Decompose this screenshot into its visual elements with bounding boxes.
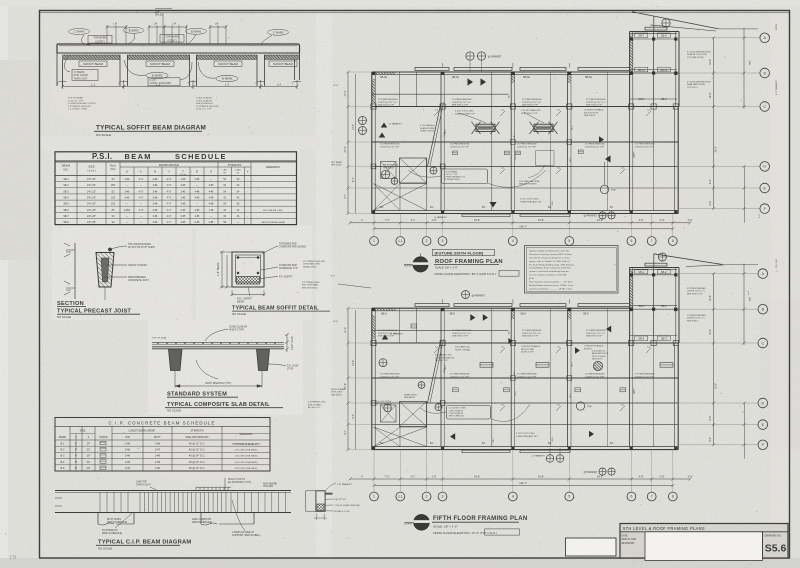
svg-text:SEE 5/S5.6: SEE 5/S5.6 bbox=[331, 165, 343, 167]
svg-text:7'-0": 7'-0" bbox=[385, 219, 390, 222]
svg-text:2 hr. fire rating in accordanc: 2 hr. fire rating in accordance with Tab… bbox=[529, 274, 567, 277]
svg-text:roof: roof bbox=[748, 291, 750, 295]
section typical precast joist detail bbox=[74, 243, 76, 299]
svg-text:TOP: TOP bbox=[125, 436, 130, 439]
svg-text:4'-0" PARAPET: 4'-0" PARAPET bbox=[775, 79, 778, 95]
svg-text:15' PRESTRESSED: 15' PRESTRESSED bbox=[586, 99, 606, 101]
svg-text:MAR 23, 1981: MAR 23, 1981 bbox=[622, 538, 637, 541]
svg-text:105: 105 bbox=[111, 197, 116, 200]
svg-text:JOISTS @ 24" O.C.: JOISTS @ 24" O.C. bbox=[687, 291, 706, 293]
svg-text:2#4 CONT.(1 EA. FACE): 2#4 CONT.(1 EA. FACE) bbox=[235, 449, 258, 452]
svg-text:3-#6: 3-#6 bbox=[125, 178, 130, 181]
svg-text:24": 24" bbox=[87, 461, 91, 464]
svg-text:(ft-k): (ft-k) bbox=[111, 168, 116, 171]
soffit diagram: top projection lines and dims bbox=[106, 25, 108, 44]
svg-text:4-#5: 4-#5 bbox=[195, 215, 200, 218]
svg-text:4-#5: 4-#5 bbox=[209, 197, 214, 200]
svg-text:JOISTS @ 24" TYP: JOISTS @ 24" TYP bbox=[380, 376, 400, 378]
plan: left dim lines bbox=[347, 308, 349, 449]
svg-text:6'-8": 6'-8" bbox=[709, 437, 712, 442]
svg-text:31-A.: 31-A. bbox=[529, 277, 535, 280]
plan: beam lines bbox=[372, 106, 679, 108]
soffit diagram: A bars note bbox=[72, 70, 98, 81]
svg-text:1: 1 bbox=[373, 495, 375, 499]
svg-text:SB-10: SB-10 bbox=[638, 69, 646, 72]
svg-text:2-#6: 2-#6 bbox=[125, 455, 131, 458]
svg-text:250: 250 bbox=[111, 184, 116, 187]
svg-text:(PER SCHEDULE): (PER SCHEDULE) bbox=[192, 521, 212, 524]
svg-text:15' PRESTRESSED: 15' PRESTRESSED bbox=[687, 288, 706, 290]
small blank box left of title block bbox=[566, 538, 617, 556]
svg-text:JOISTS @ 24" TYP: JOISTS @ 24" TYP bbox=[635, 146, 655, 148]
svg-text:1'-8" BEAM: 1'-8" BEAM bbox=[216, 263, 220, 276]
svg-text:24"x 25": 24"x 25" bbox=[87, 215, 96, 218]
roof plan: column tags bbox=[500, 111, 505, 116]
svg-text:E: E bbox=[196, 170, 198, 174]
plan: letter bubbles right bbox=[679, 37, 760, 39]
svg-text:4-#5: 4-#5 bbox=[195, 178, 200, 181]
svg-text:TYPICAL BEAM SOFFIT DETAIL: TYPICAL BEAM SOFFIT DETAIL bbox=[232, 306, 319, 312]
svg-text:system, refer to Chapter 31, T: system, refer to Chapter 31, Table 31-A,… bbox=[529, 260, 570, 263]
svg-text:TOP (SEE NOTE): TOP (SEE NOTE) bbox=[687, 57, 704, 59]
svg-text:24"x 25": 24"x 25" bbox=[87, 221, 96, 224]
svg-text:@ PARAPET: @ PARAPET bbox=[532, 455, 546, 458]
soffit diagram: span dimension line bbox=[62, 80, 64, 89]
svg-text:15' PRESTRESSED: 15' PRESTRESSED bbox=[450, 374, 470, 376]
svg-text:4-#5: 4-#5 bbox=[209, 190, 214, 193]
soffit diagram: SOFFIT BEAM labels bbox=[79, 61, 107, 66]
svg-text:4 1/2 LT WT CONC: 4 1/2 LT WT CONC bbox=[520, 199, 539, 201]
svg-text:JOISTS @ 24" TYP: JOISTS @ 24" TYP bbox=[380, 146, 400, 148]
svg-text:CONC SLAB W/: CONC SLAB W/ bbox=[196, 99, 212, 102]
svg-text:W8 MONORAIL: W8 MONORAIL bbox=[383, 164, 399, 167]
svg-text:EXP JT MATL: EXP JT MATL bbox=[308, 403, 322, 406]
plan: grid bubbles bottom bbox=[373, 450, 375, 492]
svg-text:SEE 3/S5.6 TYP: SEE 3/S5.6 TYP bbox=[452, 336, 469, 338]
plan: column lines bbox=[440, 308, 442, 446]
svg-text:STIRRUPS: STIRRUPS bbox=[228, 163, 242, 167]
svg-text:ROOF FRAMING PLAN: ROOF FRAMING PLAN bbox=[435, 259, 503, 265]
svg-text:8": 8" bbox=[75, 461, 77, 464]
svg-text:SB-6: SB-6 bbox=[521, 312, 527, 315]
svg-text:TYPICAL PRECAST JOIST: TYPICAL PRECAST JOIST bbox=[57, 309, 131, 315]
svg-text:4 1/2 LT WT CONC: 4 1/2 LT WT CONC bbox=[455, 111, 474, 113]
plan: parapet tabs bbox=[415, 67, 449, 70]
svg-text:24'-8": 24'-8" bbox=[538, 475, 544, 478]
svg-text:SB-9: SB-9 bbox=[661, 98, 667, 101]
svg-text:ADD WHERE: ADD WHERE bbox=[263, 482, 278, 485]
svg-text:SB-3: SB-3 bbox=[661, 305, 667, 308]
svg-text:JOISTS @ 24" O.C.: JOISTS @ 24" O.C. bbox=[378, 102, 398, 104]
svg-text:SEE 3/S5.6 TYP: SEE 3/S5.6 TYP bbox=[452, 105, 469, 107]
soffit diagram: left support column bbox=[56, 53, 58, 86]
svg-text:4' CONC/DISTRIBUTION: 4' CONC/DISTRIBUTION bbox=[687, 82, 711, 84]
svg-text:24"x 25": 24"x 25" bbox=[87, 203, 96, 206]
svg-text:PER 2/S5.6 TYP: PER 2/S5.6 TYP bbox=[521, 113, 538, 115]
svg-text:(TYP): (TYP) bbox=[287, 368, 293, 371]
svg-text:JOISTS @ 24" O.C.: JOISTS @ 24" O.C. bbox=[586, 102, 606, 104]
svg-text:3-#6: 3-#6 bbox=[153, 197, 158, 200]
svg-text:SEE ARCH: SEE ARCH bbox=[404, 396, 415, 399]
svg-text:SB-4: SB-4 bbox=[63, 197, 69, 200]
svg-text:CONVEYOR AISLE: CONVEYOR AISLE bbox=[584, 345, 604, 348]
svg-text:15' PRESTRESSED: 15' PRESTRESSED bbox=[522, 330, 542, 332]
svg-text:SLAB W/ WWF: SLAB W/ WWF bbox=[420, 127, 436, 130]
svg-text:4'-0": 4'-0" bbox=[167, 215, 172, 218]
svg-text:5# cont: 5# cont bbox=[180, 173, 186, 176]
svg-text:1.1: 1.1 bbox=[398, 239, 403, 243]
svg-text:4 1/2" SLAB: 4 1/2" SLAB bbox=[291, 336, 294, 350]
svg-text:SIZE AND SPACING: SIZE AND SPACING bbox=[185, 436, 208, 439]
svg-text:JOISTS @ 24" O.C.: JOISTS @ 24" O.C. bbox=[452, 102, 472, 104]
composite slab lines bbox=[152, 341, 284, 343]
svg-text:LOAD: LOAD bbox=[235, 169, 241, 172]
plan: grid bubbles bottom bbox=[373, 214, 375, 237]
svg-text:4'-1": 4'-1" bbox=[167, 221, 172, 224]
svg-text:C.I.P. CONCRETE BEAM SCHEDULE: C.I.P. CONCRETE BEAM SCHEDULE bbox=[109, 420, 216, 425]
svg-text:4'-0": 4'-0" bbox=[167, 178, 172, 181]
svg-text:3-#6: 3-#6 bbox=[153, 203, 158, 206]
svg-text:W12x27 SEE: W12x27 SEE bbox=[521, 349, 535, 351]
svg-text:@ PARAPET: @ PARAPET bbox=[472, 294, 486, 297]
svg-text:3-#6: 3-#6 bbox=[153, 209, 158, 212]
svg-text:ROOF: ROOF bbox=[776, 23, 778, 30]
svg-text:TYP JST SEAT DET: TYP JST SEAT DET bbox=[521, 109, 541, 112]
svg-text:SB-6a: SB-6a bbox=[523, 76, 531, 79]
svg-text:5: 5 bbox=[568, 495, 570, 499]
svg-text:NORTH: NORTH bbox=[405, 523, 413, 525]
svg-text:TOP OF BEAM: TOP OF BEAM bbox=[68, 97, 83, 100]
svg-text:NORTH: NORTH bbox=[404, 266, 412, 268]
svg-text:SECTION: SECTION bbox=[57, 301, 84, 307]
CIP table data rows bbox=[55, 445, 270, 447]
svg-text:2: 2 bbox=[426, 495, 428, 499]
svg-text:C: C bbox=[763, 105, 766, 109]
svg-text:6: 6 bbox=[630, 495, 632, 499]
svg-text:4'-0": 4'-0" bbox=[139, 190, 144, 193]
svg-text:SB-6a: SB-6a bbox=[380, 76, 388, 79]
svg-text:B: B bbox=[154, 170, 156, 174]
svg-text:L.1: L.1 bbox=[91, 82, 95, 86]
plan: diagonal beam bbox=[428, 103, 442, 167]
svg-text:TOP BARS: TOP BARS bbox=[165, 35, 179, 39]
svg-text:1/2" PREMOLDED EXP: 1/2" PREMOLDED EXP bbox=[303, 261, 326, 263]
svg-text:2: 2 bbox=[426, 239, 428, 243]
svg-text:1/2 PREMOLDED: 1/2 PREMOLDED bbox=[308, 402, 326, 404]
svg-text:Ru: Ru bbox=[237, 173, 240, 175]
svg-text:2#4 CONT.(1 EA. FACE): 2#4 CONT.(1 EA. FACE) bbox=[235, 443, 258, 446]
svg-text:SB-6: SB-6 bbox=[381, 312, 387, 315]
precast joist shape bbox=[96, 253, 114, 288]
svg-text:2-#7: 2-#7 bbox=[155, 449, 161, 452]
svg-text:NOTE / DETAIL: NOTE / DETAIL bbox=[455, 348, 471, 351]
svg-text:1501/ AND 400: 1501/ AND 400 bbox=[455, 346, 471, 349]
svg-text:BEAM: BEAM bbox=[125, 152, 152, 161]
svg-text:L.3: L.3 bbox=[225, 82, 229, 86]
svg-text:JOISTS @ 24" O.C.: JOISTS @ 24" O.C. bbox=[586, 333, 606, 335]
svg-text:D: D bbox=[763, 165, 766, 169]
scan speckles bbox=[190, 307, 193, 310]
svg-text:#3 @ 12" O.C.: #3 @ 12" O.C. bbox=[189, 442, 206, 445]
svg-text:BEAM: BEAM bbox=[237, 301, 244, 304]
svg-text:24"x 20": 24"x 20" bbox=[87, 178, 96, 181]
svg-text:L.2: L.2 bbox=[156, 82, 160, 86]
svg-text:10'-5": 10'-5" bbox=[352, 360, 355, 366]
svg-text:15' PRESTRESSED: 15' PRESTRESSED bbox=[450, 144, 470, 146]
svg-text:SCALE: 1/8" = 1'-0": SCALE: 1/8" = 1'-0" bbox=[435, 265, 458, 269]
plan: bottom dimension lines bbox=[350, 478, 690, 480]
drawing number cell bbox=[762, 532, 764, 558]
svg-text:JOISTS @ 24" TYP: JOISTS @ 24" TYP bbox=[450, 376, 470, 378]
svg-text:2-#5: 2-#5 bbox=[181, 203, 186, 206]
svg-text:3-#6: 3-#6 bbox=[153, 184, 158, 187]
plan: roof sliver diagonal bbox=[654, 254, 723, 265]
svg-text:SB-5: SB-5 bbox=[661, 338, 667, 341]
svg-text:SIZE: SIZE bbox=[88, 165, 94, 169]
svg-text:24'-8": 24'-8" bbox=[538, 219, 544, 222]
svg-text:2-#6: 2-#6 bbox=[155, 467, 161, 470]
svg-text:2-#5: 2-#5 bbox=[181, 190, 186, 193]
svg-text:@ 24 O.C. TYP: @ 24 O.C. TYP bbox=[196, 109, 212, 111]
white detail panels bbox=[52, 225, 192, 320]
svg-text:8'-0": 8'-0" bbox=[709, 416, 712, 421]
P.S.I. beam schedule table bbox=[55, 152, 297, 225]
svg-text:W/ PL 3/8x8: W/ PL 3/8x8 bbox=[331, 392, 343, 394]
svg-text:SEE DET 6/S5.6: SEE DET 6/S5.6 bbox=[302, 287, 318, 289]
svg-text:SEE 3/S5.6 TYP: SEE 3/S5.6 TYP bbox=[378, 105, 395, 107]
svg-text:3: 3 bbox=[442, 495, 444, 499]
svg-text:Typical condition not illustra: Typical condition not illustrated in U.S… bbox=[529, 250, 570, 253]
svg-text:SEE 3/S5.6 TYP: SEE 3/S5.6 TYP bbox=[586, 336, 603, 338]
svg-text:2-#6: 2-#6 bbox=[125, 461, 131, 464]
svg-text:4'-8": 4'-8" bbox=[639, 475, 644, 478]
svg-text:8'-4": 8'-4" bbox=[352, 177, 355, 182]
roof plan: hatched beam symbols bbox=[478, 126, 494, 130]
svg-text:CONC SLAB W/: CONC SLAB W/ bbox=[449, 409, 464, 412]
svg-text:W/ STD HK AT PT SUPP.: W/ STD HK AT PT SUPP. bbox=[128, 246, 155, 249]
svg-text:OCCURS: OCCURS bbox=[263, 486, 273, 488]
svg-text:FINISH FLOOR ELEVATION = 58'-4: FINISH FLOOR ELEVATION = 58'-4" (FOR S.O… bbox=[435, 272, 496, 276]
svg-text:STAIR OPNG: STAIR OPNG bbox=[404, 394, 417, 397]
svg-text:T: T bbox=[182, 170, 184, 174]
svg-text:#3 @ 14" O.C.: #3 @ 14" O.C. bbox=[189, 461, 206, 464]
svg-text:TOP OF SLAB: TOP OF SLAB bbox=[152, 337, 167, 340]
svg-text:24"x 25": 24"x 25" bbox=[87, 209, 96, 212]
svg-text:7: 7 bbox=[651, 495, 653, 499]
svg-text:150T. AISLE 400: 150T. AISLE 400 bbox=[435, 354, 452, 357]
svg-text:SEE SCHEDULE: SEE SCHEDULE bbox=[449, 416, 465, 418]
svg-text:B-5: B-5 bbox=[61, 467, 66, 470]
svg-text:SB-6a: SB-6a bbox=[585, 76, 593, 79]
fifth plan: keyed note box bbox=[447, 406, 491, 420]
svg-text:5TH LEVEL & ROOF FRAMING: 5TH LEVEL & ROOF FRAMING PLANS bbox=[623, 526, 705, 531]
svg-text:7'-0": 7'-0" bbox=[385, 475, 390, 478]
svg-text:Floor slab (on corking require: Floor slab (on corking required) .......… bbox=[529, 281, 573, 284]
svg-text:1/2" PREMOLDED: 1/2" PREMOLDED bbox=[302, 282, 320, 284]
svg-text:County Edition. Each compone: County Edition. Each component of the fl… bbox=[529, 267, 571, 270]
plan: stair x-boxes bbox=[400, 158, 427, 183]
plan: column squares bbox=[372, 308, 375, 311]
svg-text:(FUTURE SIXTH FLOOR): (FUTURE SIXTH FLOOR) bbox=[435, 250, 484, 255]
svg-text:W12 BEAM: W12 BEAM bbox=[331, 161, 342, 164]
svg-text:C: C bbox=[761, 341, 764, 345]
svg-text:TYPICAL C.I.P. BEAM DIAGRAM: TYPICAL C.I.P. BEAM DIAGRAM bbox=[98, 540, 191, 546]
plan: column lines bbox=[440, 72, 442, 211]
svg-text:SB-8: SB-8 bbox=[661, 35, 667, 38]
svg-text:OVER PRECAST JST: OVER PRECAST JST bbox=[516, 435, 538, 438]
svg-text:SOFFIT BEAM: SOFFIT BEAM bbox=[218, 62, 238, 66]
svg-text:2-#5: 2-#5 bbox=[181, 178, 186, 181]
svg-text:TOP OF BEAM: TOP OF BEAM bbox=[444, 170, 458, 173]
beam soffit dims bbox=[221, 252, 223, 287]
plan: diagonal beam bbox=[428, 339, 442, 403]
svg-text:SCHEDULE: SCHEDULE bbox=[175, 152, 227, 161]
svg-text:2-6 x 3-0 OPNG: 2-6 x 3-0 OPNG bbox=[376, 401, 391, 403]
plan: tower outline bbox=[629, 268, 631, 344]
svg-text:1'-8": 1'-8" bbox=[432, 475, 437, 478]
svg-text:4'-8": 4'-8" bbox=[639, 219, 644, 222]
plan: parapet tabs bbox=[415, 304, 449, 307]
svg-text:2-#5: 2-#5 bbox=[181, 184, 186, 187]
svg-text:3-#6: 3-#6 bbox=[153, 221, 158, 224]
svg-text:8'-4": 8'-4" bbox=[352, 414, 355, 419]
svg-text:REMARKS: REMARKS bbox=[266, 165, 280, 169]
svg-text:2-#6: 2-#6 bbox=[155, 442, 161, 445]
svg-text:#5@12 HORIZ-VERT EA: #5@12 HORIZ-VERT EA bbox=[335, 504, 360, 507]
svg-text:CANTILEVERED BEAM: CANTILEVERED BEAM bbox=[261, 221, 285, 224]
svg-text:NOTE 4 TYP: NOTE 4 TYP bbox=[435, 360, 448, 362]
plan: beam lines bbox=[372, 342, 679, 344]
svg-text:2-#5: 2-#5 bbox=[181, 215, 186, 218]
svg-text:DOWELS @ 48: DOWELS @ 48 bbox=[334, 511, 350, 513]
svg-text:2-#5: 2-#5 bbox=[195, 221, 200, 224]
svg-text:16'-8": 16'-8" bbox=[709, 295, 712, 301]
svg-text:2-#5: 2-#5 bbox=[181, 221, 186, 224]
svg-text:16'-8": 16'-8" bbox=[709, 59, 712, 65]
svg-text:114'-1": 114'-1" bbox=[519, 226, 527, 229]
svg-text:CONC SLAB W/: CONC SLAB W/ bbox=[196, 97, 212, 100]
svg-text:S: S bbox=[210, 170, 212, 174]
svg-text:1/2 PREMOLDED EXP: 1/2 PREMOLDED EXP bbox=[196, 106, 219, 108]
svg-text:4-#6: 4-#6 bbox=[195, 190, 200, 193]
svg-text:1/2 PREMOLDED: 1/2 PREMOLDED bbox=[444, 179, 461, 181]
svg-text:TYP: TYP bbox=[587, 407, 592, 409]
svg-text:24'-6": 24'-6" bbox=[344, 146, 347, 152]
plan: main outline bbox=[372, 307, 630, 309]
svg-text:3-#56: 3-#56 bbox=[124, 209, 131, 212]
svg-text:4 1/2 (4000psi): 4 1/2 (4000psi) bbox=[420, 125, 435, 127]
svg-text:@ PARAPET: @ PARAPET bbox=[389, 123, 403, 126]
svg-text:W12x27 BEAM: W12x27 BEAM bbox=[331, 388, 345, 391]
svg-text:3-#6: 3-#6 bbox=[153, 190, 158, 193]
svg-text:'C' BARS: 'C' BARS bbox=[273, 30, 284, 34]
soffit diagram: B bars balloon 1 bbox=[146, 72, 168, 78]
svg-text:#3 @ 12" O.C.: #3 @ 12" O.C. bbox=[189, 467, 206, 470]
precast joist labels bbox=[111, 246, 127, 249]
svg-text:JOISTS @ 24" O.C.: JOISTS @ 24" O.C. bbox=[452, 333, 472, 335]
beam soffit leader labels bbox=[262, 246, 278, 254]
svg-text:Y: Y bbox=[168, 170, 170, 174]
svg-text:Columns and beams ............: Columns and beams ............... 18 Min… bbox=[529, 288, 572, 290]
svg-text:4'-0": 4'-0" bbox=[167, 209, 172, 212]
svg-text:8": 8" bbox=[75, 467, 77, 470]
svg-text:STIRRUPS: STIRRUPS bbox=[190, 429, 203, 433]
svg-text:(CONT.): (CONT.) bbox=[95, 39, 105, 43]
plan: stair x-boxes bbox=[400, 402, 427, 427]
svg-text:15' PRESTRESSED: 15' PRESTRESSED bbox=[378, 99, 398, 101]
plan: right dim lines bbox=[713, 274, 715, 445]
svg-text:15' PRESTRESSED: 15' PRESTRESSED bbox=[452, 99, 472, 101]
svg-text:SB-7: SB-7 bbox=[638, 35, 644, 38]
svg-text:8'-1": 8'-1" bbox=[344, 194, 347, 199]
svg-text:system is selected to individu: system is selected to individually keep … bbox=[529, 270, 570, 273]
svg-text:4'-0": 4'-0" bbox=[688, 219, 693, 222]
svg-text:24"x 23": 24"x 23" bbox=[87, 197, 96, 200]
svg-text:2'-8": 2'-8" bbox=[660, 475, 665, 478]
svg-text:( 9: ( 9 bbox=[10, 555, 16, 561]
svg-text:SOFFIT BEAM: SOFFIT BEAM bbox=[273, 62, 293, 66]
svg-text:P.S. SOFFIT: P.S. SOFFIT bbox=[279, 276, 293, 279]
svg-text:#4@12 TYP: #4@12 TYP bbox=[334, 499, 346, 501]
svg-text:24"x 23": 24"x 23" bbox=[87, 190, 96, 193]
svg-text:W/ PL 1/2x8x8: W/ PL 1/2x8x8 bbox=[592, 356, 606, 358]
svg-text:JOISTS @ 24" TYP: JOISTS @ 24" TYP bbox=[635, 376, 655, 378]
svg-text:NO SCALE: NO SCALE bbox=[57, 315, 71, 319]
svg-text:5: 5 bbox=[568, 239, 570, 243]
svg-text:24'-8": 24'-8" bbox=[474, 475, 480, 478]
svg-text:15' PRESTRESSED: 15' PRESTRESSED bbox=[452, 330, 472, 332]
svg-text:EXP JOINT MATL: EXP JOINT MATL bbox=[302, 284, 319, 287]
svg-text:8'-0": 8'-0" bbox=[709, 179, 712, 184]
svg-text:@ PARAPET: @ PARAPET bbox=[390, 333, 404, 336]
svg-text:15' PRESTRESSED: 15' PRESTRESSED bbox=[635, 144, 655, 146]
svg-text:25'-0": 25'-0" bbox=[715, 383, 718, 389]
svg-text:REVISIONS:: REVISIONS: bbox=[622, 543, 636, 545]
svg-text:4-#5: 4-#5 bbox=[209, 203, 214, 206]
svg-text:FINISH FLOOR ELEVATION = 47'-4: FINISH FLOOR ELEVATION = 47'-4" (TYP. U.… bbox=[433, 531, 497, 535]
beam soffit hatched soffit pad bbox=[237, 277, 260, 285]
svg-text:the South Florida Building Cod: the South Florida Building Code, 1981 Br… bbox=[529, 263, 575, 266]
svg-text:6'-8": 6'-8" bbox=[709, 201, 712, 206]
svg-text:4' CONC/DISTRIBUTION: 4' CONC/DISTRIBUTION bbox=[687, 52, 711, 54]
svg-text:LONGITUDINAL REINF.: LONGITUDINAL REINF. bbox=[129, 430, 156, 433]
svg-text:4 x 4 W.W.F. OVER: 4 x 4 W.W.F. OVER bbox=[68, 109, 87, 111]
svg-text:SIZE: SIZE bbox=[80, 429, 86, 433]
svg-text:15 PRESTRESSED JOISTS: 15 PRESTRESSED JOISTS bbox=[68, 103, 96, 105]
svg-text:2#4 CONT.(1 EA. FACE): 2#4 CONT.(1 EA. FACE) bbox=[235, 467, 258, 470]
svg-text:@ PARAPET: @ PARAPET bbox=[488, 56, 502, 59]
svg-text:DRAWING NO.: DRAWING NO. bbox=[765, 535, 782, 538]
svg-text:15' PRESTRESSED: 15' PRESTRESSED bbox=[517, 374, 537, 376]
soffit diagram: CIP column note bbox=[148, 78, 180, 86]
svg-text:15' PRESTRESSED: 15' PRESTRESSED bbox=[522, 99, 542, 101]
svg-text:SHAPE: SHAPE bbox=[99, 436, 108, 439]
svg-text:SB-2: SB-2 bbox=[638, 305, 644, 308]
svg-text:THRU OUT: THRU OUT bbox=[74, 76, 88, 80]
svg-text:TYP PARAPET: TYP PARAPET bbox=[337, 483, 353, 486]
svg-text:2-#6: 2-#6 bbox=[155, 461, 161, 464]
svg-text:REMARKS: REMARKS bbox=[240, 432, 253, 436]
svg-text:15' PRESTRESSED: 15' PRESTRESSED bbox=[380, 374, 400, 376]
svg-text:Bonded tendon prestress joists: Bonded tendon prestress joists...28 Min.… bbox=[529, 284, 574, 287]
svg-text:TYPICAL SOFFIT BEAM DIAGRAM: TYPICAL SOFFIT BEAM DIAGRAM bbox=[96, 125, 206, 132]
general notes box bbox=[525, 246, 619, 294]
typical C.I.P. beam diagram bbox=[55, 490, 291, 492]
svg-text:@ PARAPET: @ PARAPET bbox=[583, 215, 597, 218]
svg-text:8": 8" bbox=[75, 442, 77, 445]
svg-text:JOISTS @ 24" TYP: JOISTS @ 24" TYP bbox=[450, 146, 470, 148]
svg-text:EA SUPPORT (TYP): EA SUPPORT (TYP) bbox=[228, 481, 251, 484]
